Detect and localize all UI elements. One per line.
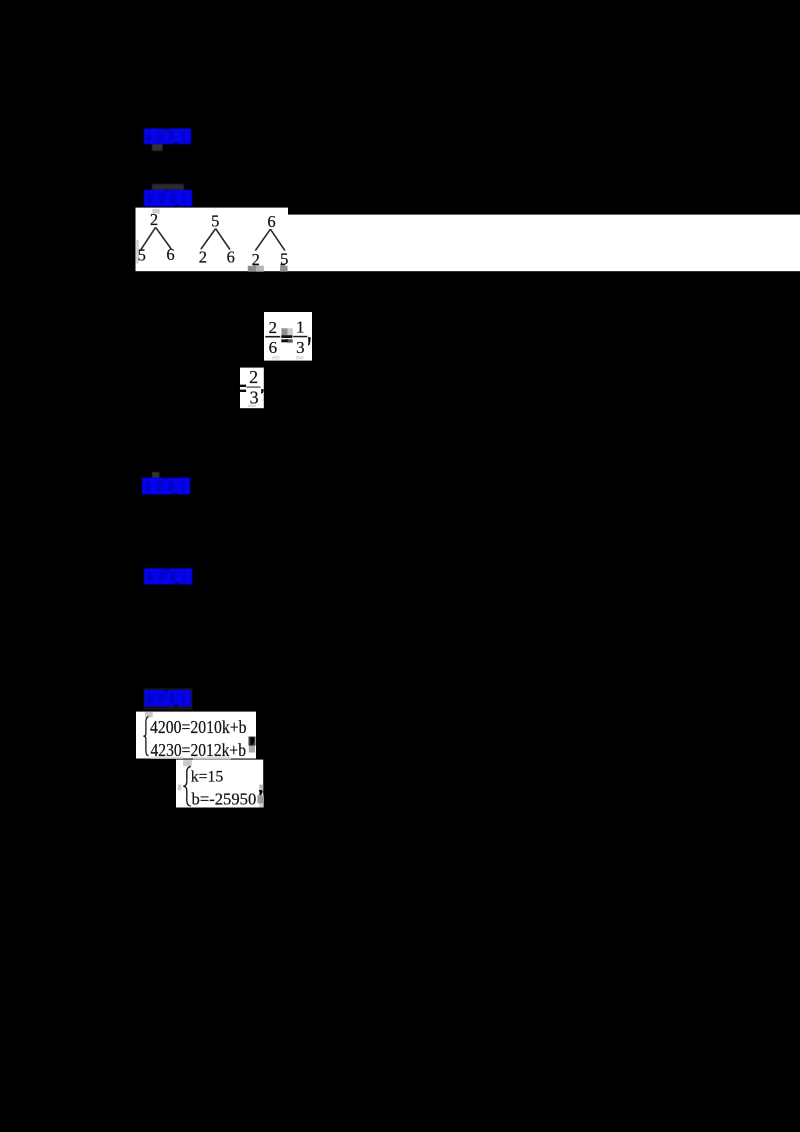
- svg-text:6: 6: [269, 338, 278, 357]
- svg-text:1: 1: [296, 318, 305, 337]
- white band: tree box part: [136, 208, 289, 272]
- svg-text:3: 3: [250, 387, 259, 407]
- blue header 1: [144, 129, 191, 151]
- equation system 2: [176, 760, 264, 809]
- svg-text:5: 5: [280, 250, 288, 269]
- blue header 2 + gray mark above: [144, 184, 192, 207]
- svg-text:6: 6: [227, 247, 235, 266]
- svg-text:2: 2: [199, 248, 207, 267]
- svg-text:b=-25950: b=-25950: [192, 790, 257, 809]
- svg-text:6: 6: [166, 245, 174, 264]
- blue header 3 + gray mark above: [142, 472, 190, 494]
- svg-text:3: 3: [296, 338, 305, 357]
- tree 3: [252, 212, 289, 269]
- blue header 4: [144, 568, 192, 584]
- svg-text:2: 2: [268, 318, 277, 337]
- fraction patch 2/6 = 1/3: [264, 312, 312, 361]
- svg-text:2: 2: [150, 210, 158, 229]
- tree 2: [199, 212, 235, 267]
- svg-text:2: 2: [252, 250, 260, 269]
- svg-text:4200=2010k+b: 4200=2010k+b: [150, 717, 247, 737]
- svg-text:k=15: k=15: [191, 768, 224, 785]
- equation system 1: [136, 712, 256, 760]
- svg-text:2: 2: [249, 367, 258, 387]
- svg-text:5: 5: [211, 212, 219, 231]
- blue header 5: [144, 688, 193, 710]
- svg-text:6: 6: [267, 212, 275, 231]
- white band: right wide part: [288, 215, 800, 272]
- tree 1: [138, 210, 175, 265]
- fraction patch = 2/3: [239, 367, 263, 408]
- svg-text:5: 5: [138, 246, 146, 265]
- gray artifacts in tree box: [152, 209, 159, 214]
